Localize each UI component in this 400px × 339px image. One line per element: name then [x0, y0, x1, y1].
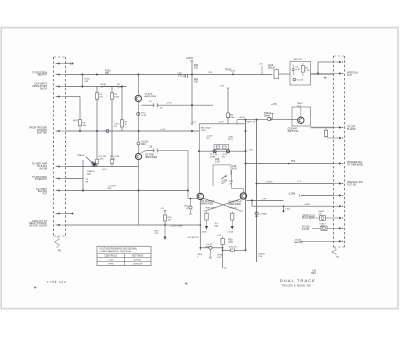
- resistor R2: [110, 93, 113, 99]
- resistor R13: [111, 159, 114, 163]
- svg-text:B HELIPOT: B HELIPOT: [35, 179, 48, 181]
- svg-text:R C300 1K: R C300 1K: [188, 237, 199, 239]
- resistor R21: [226, 113, 229, 118]
- junction: [138, 74, 140, 76]
- wire X cross: [204, 198, 243, 211]
- svg-text:ILLUM: ILLUM: [302, 229, 309, 231]
- wire dc shift y190.5: [66, 190, 189, 192]
- svg-text:CONTROLS: CONTROLS: [104, 255, 117, 257]
- pin right 1: [334, 61, 341, 63]
- wire vert x122: [121, 87, 123, 132]
- junction: [191, 104, 193, 106]
- wire pin9 stub: [66, 213, 73, 215]
- junction: [245, 150, 247, 152]
- svg-text:MA: MA: [215, 225, 219, 228]
- wire trigger out y163.5: [246, 163, 334, 165]
- svg-text:+0.35V TIME: +0.35V TIME: [170, 226, 183, 228]
- svg-text:(30V): (30V): [73, 120, 78, 122]
- svg-text:-2.2MA: -2.2MA: [288, 193, 296, 196]
- junction: [245, 130, 247, 132]
- transistor Q1: [135, 95, 141, 101]
- wire pin62 elbow: [318, 61, 334, 63]
- pin right 8: [334, 205, 341, 207]
- diode CR2: [137, 142, 140, 145]
- capacitor C8: [153, 149, 155, 153]
- svg-text:AMPLIFIER: AMPLIFIER: [145, 156, 157, 159]
- resistor R54: [190, 199, 192, 206]
- wire vert sig y183.5: [257, 183, 334, 185]
- svg-text:R17: R17: [43, 194, 48, 196]
- svg-text:+7.5V: +7.5V: [166, 103, 172, 105]
- pin left 9: [58, 213, 65, 215]
- junction: [245, 119, 247, 121]
- svg-text:TYPE 3A3: TYPE 3A3: [47, 280, 66, 284]
- diode CR10 on Q1-Q2 link: [137, 112, 140, 115]
- capacitor C99: [184, 74, 186, 78]
- diode DL100: [293, 78, 296, 81]
- junction: [138, 190, 140, 192]
- svg-text:DL100: DL100: [297, 80, 304, 82]
- thermistor RT50: [209, 246, 212, 249]
- resistor R36: [206, 211, 208, 213]
- transistor Q3: [197, 193, 203, 199]
- svg-text:+3.15: +3.15: [102, 169, 108, 171]
- svg-text:TP2: TP2: [291, 161, 296, 163]
- svg-text:+6.3K: +6.3K: [110, 159, 116, 161]
- pin right 9: [334, 217, 341, 219]
- wire vert rail x245.5: [245, 119, 247, 250]
- pin right 11: [334, 240, 341, 242]
- pin left 6: [58, 166, 65, 168]
- svg-text:50MA: 50MA: [264, 115, 270, 118]
- wire Q4 right out: [247, 200, 284, 202]
- svg-text:1.2K: 1.2K: [305, 70, 310, 72]
- wire main bus y107: [141, 104, 153, 106]
- strip caps dashes: [54, 56, 66, 58]
- wire y247.8: [200, 247, 209, 249]
- svg-text:AMPLIFIER: AMPLIFIER: [201, 203, 214, 206]
- wire position line y74.5: [66, 74, 273, 76]
- svg-text:+100V: +100V: [304, 204, 311, 206]
- svg-text:SW 1A: SW 1A: [40, 87, 48, 90]
- svg-text:TRACE: TRACE: [77, 154, 85, 157]
- pin left 3: [58, 86, 65, 88]
- svg-text:TRACES & MODE SW: TRACES & MODE SW: [282, 284, 312, 287]
- svg-text:OUT J91: OUT J91: [347, 185, 357, 187]
- svg-text:TP99: TP99: [108, 264, 114, 266]
- table voltage readings: [97, 246, 151, 265]
- svg-text:+.6 R61: +.6 R61: [265, 181, 273, 183]
- wire vert x192 top: [191, 61, 193, 124]
- junction: [96, 130, 98, 132]
- junction: [191, 130, 193, 132]
- wire y195.5: [301, 195, 334, 197]
- pin right 7: [334, 195, 341, 197]
- wire vert x228: [227, 88, 229, 113]
- svg-text:-0.2V: -0.2V: [219, 122, 225, 124]
- resistor R43: [164, 209, 167, 211]
- plus mark: [324, 77, 327, 79]
- svg-text:CR2: CR2: [141, 144, 146, 146]
- svg-text:BULB B101: BULB B101: [302, 218, 315, 220]
- box trigger circuit top edge: [199, 123, 246, 125]
- plus mark bottom left: [34, 287, 37, 289]
- svg-text:56K: 56K: [105, 73, 110, 75]
- wire pin7 elbow: [66, 178, 84, 180]
- svg-text:+6.4V: +6.4V: [141, 115, 147, 117]
- pin right 4: [334, 137, 341, 139]
- pin left 8: [58, 190, 65, 192]
- transistor Q2: [135, 153, 141, 159]
- resistor R1: [95, 93, 98, 99]
- svg-text:6-30: 6-30: [295, 69, 300, 71]
- svg-text:+1.5V: +1.5V: [271, 104, 278, 106]
- svg-text:SETTINGS: SETTINGS: [132, 255, 144, 257]
- resistor R3: [120, 120, 123, 127]
- inductor L300: [283, 206, 285, 211]
- wire vert x188: [187, 151, 189, 199]
- svg-text:+100: +100: [108, 260, 114, 262]
- wire double to pin vertical out: [311, 73, 334, 75]
- pin right 6: [334, 183, 341, 185]
- svg-text:+63K: +63K: [99, 159, 105, 161]
- svg-text:TO TIME BASE: TO TIME BASE: [347, 164, 363, 167]
- svg-text:R37 1K: R37 1K: [230, 208, 238, 210]
- svg-text:HEATER: HEATER: [294, 241, 303, 244]
- svg-text:1N: 1N: [229, 183, 232, 185]
- box Q5: [292, 107, 311, 126]
- resistor R12: [96, 159, 99, 163]
- resistor R52: [231, 249, 235, 252]
- junction: [198, 150, 200, 152]
- svg-text:+100V: +100V: [186, 57, 194, 60]
- diode CR1: [106, 129, 109, 132]
- junction: [138, 130, 140, 132]
- svg-text:+1.5V: +1.5V: [247, 150, 253, 152]
- wire +100V y206.2: [252, 205, 334, 207]
- connector J1 dashed strip left: [53, 57, 55, 236]
- wire pin1 stub: [66, 63, 71, 65]
- resistor R6: [78, 120, 81, 126]
- connector J11 dashed strip right: [333, 56, 335, 247]
- svg-text:100K: 100K: [114, 97, 119, 99]
- junction: [82, 190, 84, 192]
- wire trigger y131: [66, 130, 200, 132]
- svg-text:4.7K: 4.7K: [228, 242, 233, 244]
- wire y250.3: [223, 249, 246, 251]
- resistor R50: [221, 238, 224, 244]
- plug P11 squiggle: [332, 247, 337, 255]
- svg-text:+10.5V: +10.5V: [239, 117, 246, 119]
- lamp B102: [321, 226, 327, 231]
- svg-text:PLATES: PLATES: [347, 128, 356, 131]
- wire y241.3: [300, 240, 334, 242]
- wire into box: [279, 73, 290, 75]
- capacitor C1 between rails: [81, 75, 83, 87]
- svg-text:-150V: -150V: [228, 232, 234, 234]
- pin left 2: [58, 74, 65, 76]
- svg-text:6-30: 6-30: [232, 168, 237, 170]
- svg-text:+6V: +6V: [318, 213, 322, 215]
- potentiometer trace bal blob: [93, 163, 96, 166]
- plus mark bottom middle: [185, 282, 188, 284]
- svg-text:R.EPY 1K: R.EPY 1K: [246, 122, 256, 124]
- wire sweep gate y225: [66, 224, 201, 226]
- lamp B101: [320, 216, 326, 221]
- tunnel diode TDA: [213, 150, 216, 153]
- svg-text:OUT: OUT: [347, 75, 352, 77]
- transistor Q4: [240, 193, 246, 199]
- pin right 10: [334, 227, 341, 229]
- junction: [245, 163, 247, 165]
- stub dot pin9: [72, 213, 74, 215]
- svg-text:10K: 10K: [168, 219, 172, 221]
- wire stub pin 138: [327, 137, 334, 139]
- svg-text:+6V: +6V: [320, 226, 324, 228]
- junction: [191, 74, 193, 76]
- svg-text:56K: 56K: [85, 81, 89, 83]
- svg-text:SWITCH CONTR: SWITCH CONTR: [29, 226, 47, 228]
- svg-text:CENT-BR: CENT-BR: [133, 264, 143, 266]
- box termination network: [290, 62, 311, 86]
- pin left 1: [58, 63, 65, 65]
- plug P6 squiggle bottom of strip: [55, 236, 60, 248]
- pin right 2: [334, 73, 341, 75]
- svg-text:VOLTAGE READINGS (NO SIGNAL): VOLTAGE READINGS (NO SIGNAL): [100, 248, 138, 251]
- resistor R9: [301, 66, 304, 73]
- junction: [256, 119, 258, 121]
- capacitor C5 in line: [153, 103, 155, 107]
- svg-text:R52 1K: R52 1K: [230, 246, 238, 248]
- svg-text:R98 L99: R98 L99: [294, 59, 303, 61]
- tick top of x228: [227, 87, 230, 89]
- junction: [256, 183, 258, 185]
- wire pin6 y166.5: [66, 166, 139, 168]
- svg-text:DUAL TRACE: DUAL TRACE: [280, 278, 316, 283]
- wire x192 end tick: [191, 123, 194, 125]
- tunnel diode TD404: [267, 117, 270, 120]
- wire Q5 to pin y127.5: [311, 126, 334, 128]
- svg-text:SWITCHG: SWITCHG: [288, 131, 299, 133]
- node +3.5 tick: [261, 66, 263, 75]
- transistor Q5: [298, 117, 304, 123]
- wire vert x326 resistor R91: [325, 128, 327, 130]
- svg-text:AMPLIFIER: AMPLIFIER: [229, 203, 242, 206]
- junction: [96, 74, 98, 76]
- wire signal y119: [237, 119, 267, 121]
- svg-text:DELAY: DELAY: [268, 67, 276, 70]
- svg-text:2.2K: 2.2K: [258, 256, 263, 258]
- trimmer arrow C30A: [222, 176, 227, 179]
- svg-text:+1.2V: +1.2V: [160, 129, 166, 131]
- svg-text:LOWER READINGS CONDITIONS:: LOWER READINGS CONDITIONS:: [100, 250, 132, 253]
- svg-text:R36 470K: R36 470K: [206, 208, 216, 210]
- pin right 3: [334, 127, 341, 129]
- capacitor C9: [292, 68, 295, 70]
- svg-text:VIA SW: VIA SW: [39, 167, 48, 170]
- svg-text:47K: 47K: [155, 233, 159, 235]
- pin left 7: [58, 178, 65, 180]
- svg-text:100K: 100K: [117, 87, 123, 89]
- svg-text:-150V: -150V: [201, 232, 207, 234]
- diode CR45: [255, 212, 258, 215]
- svg-text:AMPLIFIER: AMPLIFIER: [145, 95, 157, 98]
- svg-text:REV: REV: [311, 273, 316, 275]
- inductor L100 delay: [274, 70, 279, 79]
- wire vert x200: [198, 124, 200, 193]
- box around R22 R23: [214, 145, 229, 150]
- wire vert x97: [96, 87, 98, 167]
- svg-text:EMITTER: EMITTER: [37, 132, 47, 134]
- svg-text:0.3V: 0.3V: [217, 257, 222, 259]
- wire input line y86.5: [66, 86, 127, 88]
- pin left 10: [58, 224, 65, 226]
- wire pin4 elbow: [66, 96, 81, 98]
- wire vert x231.7: [231, 170, 233, 189]
- pin left 4: [58, 96, 65, 98]
- capacitor box C30: [213, 164, 231, 166]
- junction: [121, 86, 123, 88]
- wire vert rail x256.5: [256, 119, 258, 262]
- ground: [164, 237, 167, 240]
- svg-text:477K: 477K: [228, 139, 233, 141]
- wire Q2 to C8: [141, 151, 146, 153]
- junction: [187, 190, 189, 192]
- svg-text:A TRIG: A TRIG: [134, 259, 141, 262]
- svg-text:1.5K: 1.5K: [215, 162, 220, 164]
- svg-text:HELIPOT: HELIPOT: [37, 75, 47, 77]
- wire vert x112: [111, 87, 113, 167]
- wire y151.2: [199, 150, 246, 152]
- tunnel diode TDB: [226, 150, 229, 153]
- svg-text:TRIG: TRIG: [201, 130, 206, 132]
- test point tick x233: [232, 72, 234, 75]
- svg-text:+2.2MA: +2.2MA: [259, 212, 267, 215]
- svg-text:+22V: +22V: [219, 86, 224, 88]
- resistor R37: [231, 211, 233, 213]
- pin right 5: [334, 163, 341, 165]
- svg-text:56K: 56K: [108, 188, 112, 190]
- svg-text:1.5M: 1.5M: [230, 117, 235, 119]
- wire Q3 emitter down: [199, 200, 201, 251]
- pin left 5: [58, 130, 65, 132]
- wire vert x222.6: [222, 237, 224, 239]
- resistor R91: [324, 130, 327, 136]
- junction: [245, 250, 247, 252]
